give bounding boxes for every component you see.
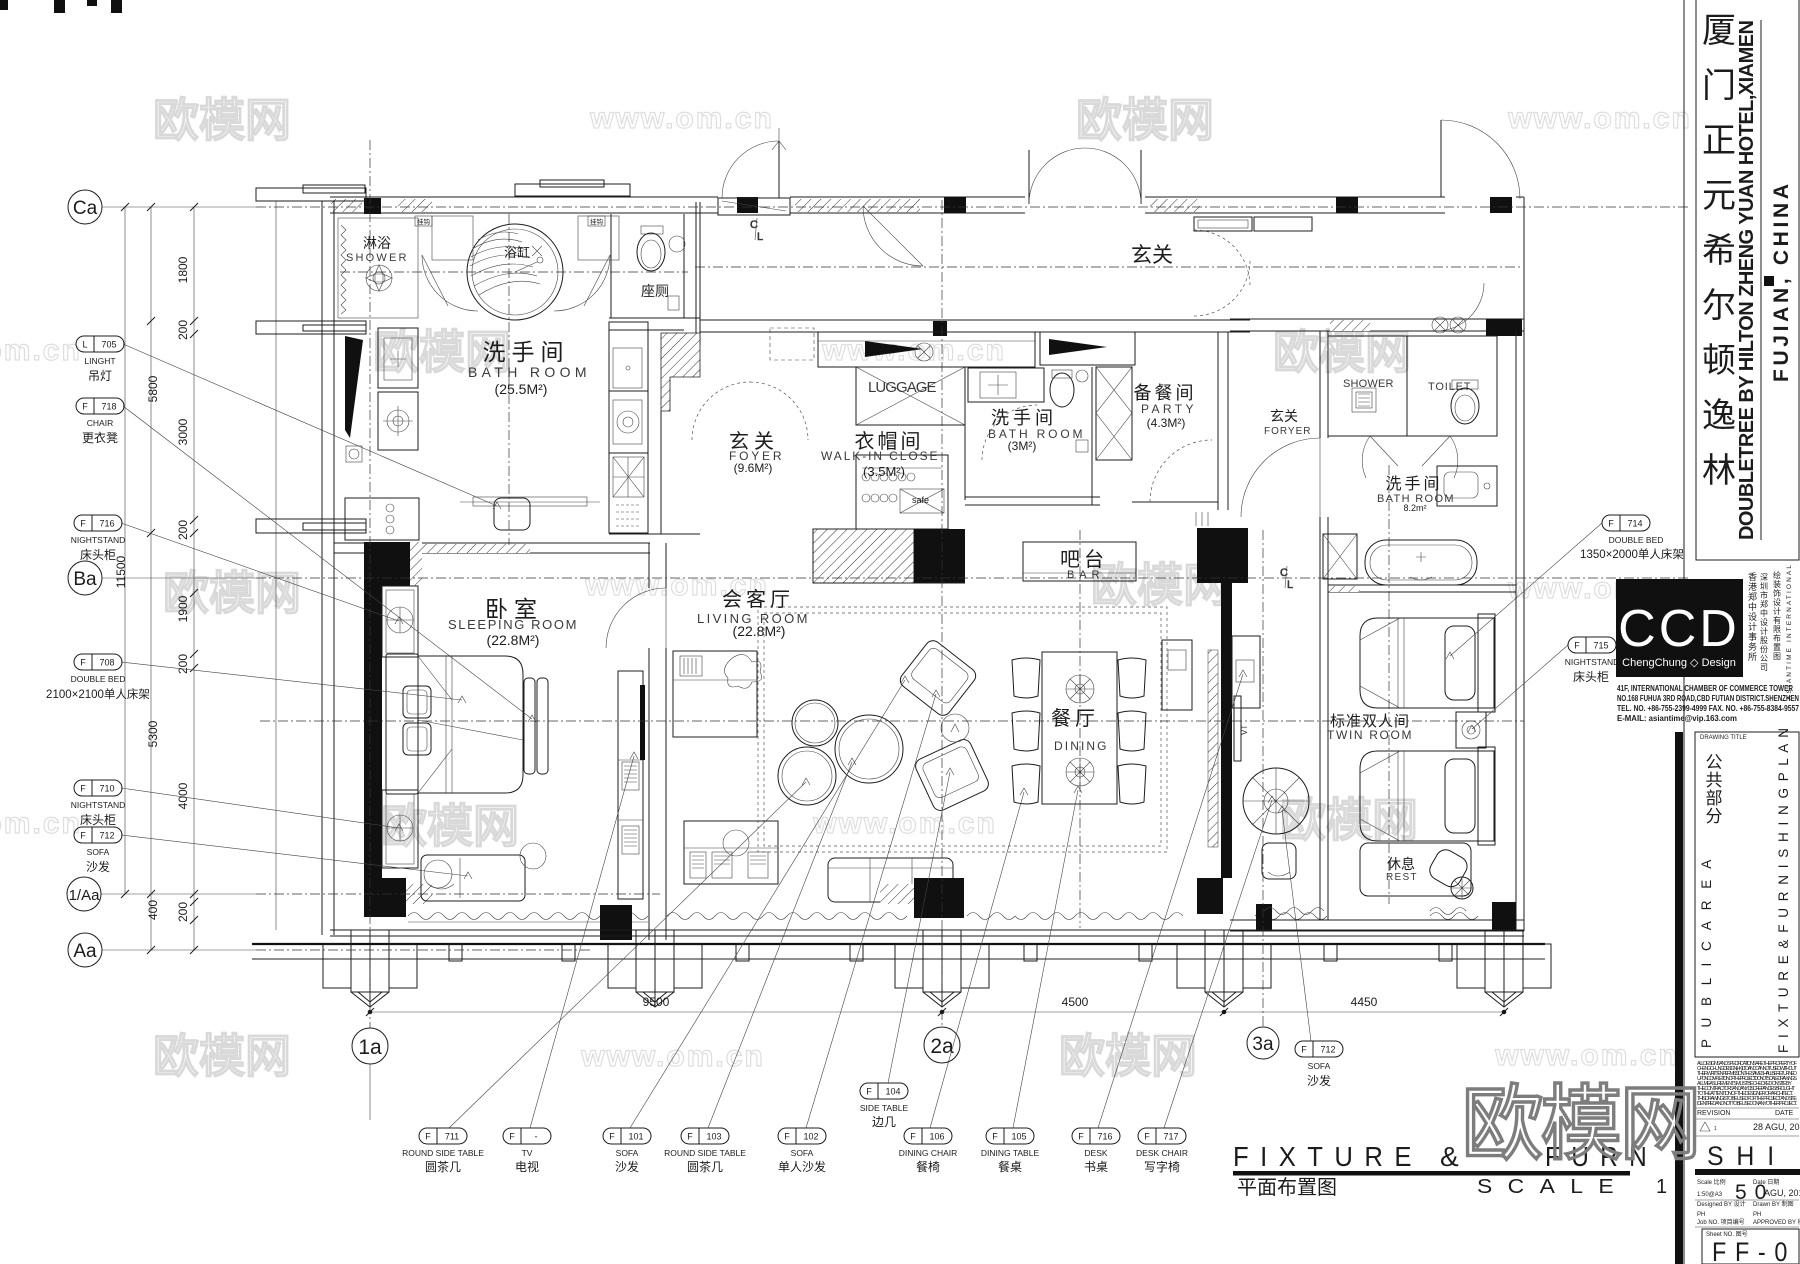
svg-text:714: 714: [1627, 519, 1642, 529]
svg-text:200: 200: [176, 320, 190, 340]
svg-text:CCD: CCD: [1618, 600, 1740, 658]
svg-text:(4.3M²): (4.3M²): [1147, 416, 1186, 430]
svg-text:欧模网: 欧模网: [381, 800, 519, 852]
svg-text:正: 正: [1702, 122, 1736, 160]
party room: [1096, 367, 1132, 460]
svg-text:4450: 4450: [1351, 995, 1378, 1009]
svg-text:元: 元: [1702, 177, 1736, 215]
living/dining curtains: [667, 913, 907, 920]
luggage closet: [856, 367, 965, 425]
svg-text:712: 712: [1320, 1045, 1335, 1055]
svg-text:708: 708: [99, 658, 114, 668]
dining table: [1042, 652, 1117, 804]
svg-text:41F, INTERNATIONAL CHAMBER OF: 41F, INTERNATIONAL CHAMBER OF COMMERCE T…: [1617, 684, 1793, 693]
double bed: [386, 654, 418, 794]
svg-text:APPROVED BY 核准: APPROVED BY 核准: [1753, 1218, 1800, 1226]
svg-text:洗手间: 洗手间: [1385, 475, 1442, 493]
closet lower wall piers: [813, 529, 914, 583]
svg-text:NIGHTSTAND: NIGHTSTAND: [71, 800, 126, 810]
svg-text:IDENTIFIED AND NOT TO BE USED: IDENTIFIED AND NOT TO BE USED ON ANY OTH…: [1697, 1101, 1798, 1107]
top-left ledge slabs: [256, 188, 366, 201]
svg-text:1:50@A3: 1:50@A3: [1697, 1192, 1723, 1198]
corridor centerline: [695, 266, 1520, 268]
svg-text:公: 公: [1706, 753, 1723, 772]
shower rosette: [366, 265, 392, 291]
svg-text:PH: PH: [1697, 1212, 1705, 1218]
dining buffet: [1162, 640, 1192, 710]
nightstand between beds: [1456, 712, 1486, 748]
svg-text:顿: 顿: [1702, 342, 1736, 380]
wall columns (black): [364, 198, 381, 214]
svg-text:(3.5M²): (3.5M²): [863, 464, 905, 479]
svg-text:NIGHTSTAND: NIGHTSTAND: [71, 535, 126, 545]
svg-text:DATE: DATE: [1775, 1110, 1793, 1117]
svg-text:欧模网: 欧模网: [153, 1030, 291, 1082]
legal fine print: [1697, 1061, 1798, 1107]
svg-text:TV: TV: [522, 1148, 533, 1158]
bedroom top wall: [334, 542, 650, 544]
svg-text:Job NO. 项目编号: Job NO. 项目编号: [1697, 1218, 1745, 1226]
svg-text:TWIN ROOM: TWIN ROOM: [1327, 728, 1413, 742]
twin bed 2: [1360, 751, 1494, 841]
svg-text:会客厅: 会客厅: [722, 588, 794, 611]
svg-text:Ba: Ba: [73, 569, 97, 590]
watermark lattice: [0, 94, 1692, 1082]
svg-text:F: F: [509, 1132, 515, 1142]
living room kitchen cabinet: [673, 651, 757, 737]
desk: [1232, 636, 1260, 708]
svg-text:TEL. NO. +86-755-2399-4999: TEL. NO. +86-755-2399-4999 FAX. NO. +86-…: [1617, 704, 1799, 713]
svg-text:SHOWER: SHOWER: [346, 252, 408, 264]
top wall: [330, 196, 718, 198]
CCD logo: [1616, 579, 1743, 677]
svg-text:F: F: [687, 1132, 693, 1142]
wing inner wall below bath: [1328, 584, 1516, 586]
svg-text:玄关: 玄关: [1131, 244, 1173, 267]
svg-text:F: F: [1078, 1132, 1084, 1142]
svg-text:104: 104: [885, 1087, 900, 1097]
svg-text:www.om.cn: www.om.cn: [580, 1040, 765, 1073]
svg-text:洗手间: 洗手间: [991, 408, 1057, 428]
svg-text:717: 717: [1163, 1132, 1178, 1142]
round coffee tables: [792, 700, 838, 746]
wardrobe + safe: [856, 455, 948, 529]
dresser knobs + bench: [345, 498, 419, 540]
svg-text:LINGHT: LINGHT: [84, 356, 115, 366]
corner marks top-left: [0, 0, 122, 13]
svg-text:沙发: 沙发: [86, 859, 110, 874]
svg-text:F: F: [80, 519, 86, 529]
svg-text:1: 1: [1656, 1176, 1667, 1198]
svg-text:www.om.cn: www.om.cn: [812, 807, 997, 840]
svg-text:F: F: [80, 658, 86, 668]
CL symbol: [750, 218, 763, 243]
svg-text:欧模网: 欧模网: [1273, 326, 1411, 378]
svg-text:P U B L I C A R E A: P U B L I C A R E A: [1699, 856, 1714, 1048]
svg-text:FF-0: FF-0: [1712, 1237, 1796, 1264]
svg-text:玄关: 玄关: [1270, 408, 1298, 424]
svg-text:www.om.cn: www.om.cn: [0, 807, 82, 840]
svg-text:www.om.cn: www.om.cn: [0, 334, 82, 367]
svg-text:TOILET: TOILET: [1428, 381, 1472, 393]
svg-text:1/Aa: 1/Aa: [69, 887, 101, 904]
svg-text:电视: 电视: [515, 1159, 539, 1174]
shower room: [1328, 336, 1407, 436]
closet doors right of corridor: [1194, 217, 1252, 231]
svg-text:餐厅: 餐厅: [1051, 707, 1099, 730]
svg-text:圆茶几: 圆茶几: [687, 1159, 723, 1174]
pilasters: [323, 930, 1551, 1007]
svg-text:洗手间: 洗手间: [483, 339, 570, 365]
svg-text:床头柜: 床头柜: [1573, 670, 1609, 684]
svg-text:www.om.cn: www.om.cn: [589, 102, 774, 135]
svg-text:F: F: [80, 784, 86, 794]
right tags: [1295, 515, 1684, 1088]
svg-text:Ca: Ca: [73, 198, 98, 219]
long centerline through plan: [260, 720, 1524, 722]
svg-text:FORYER: FORYER: [1264, 426, 1312, 437]
bedroom sofa: [421, 855, 525, 901]
svg-text:E-MAIL: asiantime@vip.163.com: E-MAIL: asiantime@vip.163.com: [1617, 714, 1737, 723]
hooks: [415, 216, 432, 226]
svg-text:LUGGAGE: LUGGAGE: [868, 379, 938, 396]
svg-text:www.om.cn: www.om.cn: [1507, 102, 1692, 135]
svg-text:欧模网: 欧模网: [1280, 794, 1418, 846]
drawing title box: [1695, 732, 1799, 1057]
bench in bathroom: [473, 497, 587, 506]
svg-text:DESK CHAIR: DESK CHAIR: [1136, 1148, 1188, 1158]
svg-text:DINING TABLE: DINING TABLE: [981, 1148, 1040, 1158]
svg-text:REVISION: REVISION: [1697, 1110, 1730, 1117]
svg-text:BAR: BAR: [1067, 569, 1101, 581]
svg-text:www.om.cn: www.om.cn: [1494, 1039, 1679, 1072]
svg-text:102: 102: [803, 1132, 818, 1142]
svg-text:F: F: [992, 1132, 998, 1142]
door top-right: [1440, 120, 1442, 197]
svg-text:F: F: [1301, 1045, 1307, 1055]
svg-text:28 AGU, 2015: 28 AGU, 2015: [1753, 1122, 1800, 1132]
grid bubbles bottom: [369, 140, 371, 1028]
curtains bedroom: [408, 913, 648, 920]
svg-text:F: F: [1144, 1132, 1150, 1142]
tub side mirrors: [432, 216, 473, 260]
svg-text:PH: PH: [1753, 1212, 1761, 1218]
svg-text:DOUBLETREE BY HILTON ZHENG YU: DOUBLETREE BY HILTON ZHENG YUAN HOTEL,XI…: [1736, 20, 1758, 540]
project name box: [1696, 0, 1799, 560]
svg-text:F: F: [80, 831, 86, 841]
svg-text:716: 716: [1097, 1132, 1112, 1142]
svg-text:(22.8M²): (22.8M²): [733, 623, 786, 639]
svg-text:SOFA: SOFA: [87, 847, 110, 857]
bathroom doors: [422, 255, 448, 306]
svg-text:1800: 1800: [176, 256, 190, 283]
svg-text:VT: VT: [1240, 725, 1249, 735]
svg-text:F: F: [866, 1087, 872, 1097]
left foyer cabinets column: [609, 322, 648, 391]
svg-text:3000: 3000: [176, 418, 190, 445]
svg-text:沙发: 沙发: [1307, 1073, 1331, 1088]
svg-text:F: F: [1608, 519, 1614, 529]
svg-text:1350×2000单人床架: 1350×2000单人床架: [1580, 547, 1684, 561]
dining carpet dashed: [758, 607, 1167, 852]
svg-text:(25.5M²): (25.5M²): [495, 381, 548, 397]
laundry X box: [1323, 534, 1357, 579]
svg-text:分: 分: [1706, 807, 1723, 826]
svg-text:逸: 逸: [1702, 397, 1736, 435]
svg-text:DRAWING TITLE: DRAWING TITLE: [1700, 735, 1747, 741]
svg-text:尔: 尔: [1702, 287, 1736, 325]
bed bench: [524, 678, 535, 774]
wing left wall: [1319, 331, 1321, 438]
svg-text:F: F: [609, 1132, 615, 1142]
svg-text:718: 718: [101, 402, 116, 412]
svg-text:SOFA: SOFA: [791, 1148, 814, 1158]
svg-text:SLEEPING ROOM: SLEEPING ROOM: [448, 617, 578, 632]
toilet: [641, 226, 663, 234]
bathroom walls: [610, 214, 612, 318]
svg-text:710: 710: [99, 784, 114, 794]
svg-text:沙发: 沙发: [615, 1159, 639, 1174]
dresser black wedge: [345, 336, 363, 438]
svg-text:边几: 边几: [872, 1115, 896, 1129]
svg-text:1: 1: [1714, 1126, 1717, 1132]
svg-text:106: 106: [929, 1132, 944, 1142]
svg-text:绘装饰设计有限布置图: 绘装饰设计有限布置图: [1773, 570, 1781, 661]
stool: [1262, 843, 1296, 879]
svg-text:平面布置图: 平面布置图: [1237, 1176, 1337, 1199]
entry door arc: [1436, 283, 1484, 331]
dim chains: [124, 207, 126, 894]
svg-text:F I X T U R E & F U R N I S: F I X T U R E & F U R N I S H I N G P L …: [1776, 728, 1791, 1053]
svg-text:书桌: 书桌: [1084, 1160, 1108, 1174]
svg-text:床头柜: 床头柜: [80, 548, 116, 562]
svg-text:FUJIAN, CHINA: FUJIAN, CHINA: [1770, 184, 1793, 382]
svg-text:FIXTURE: FIXTURE: [1233, 1141, 1423, 1172]
double doors to bath: [1370, 436, 1398, 466]
svg-text:香港郑中设计事务所: 香港郑中设计事务所: [1748, 572, 1757, 662]
svg-text:safe: safe: [912, 495, 929, 505]
foyer dashed door arcs: [692, 382, 750, 440]
svg-text:CHAIR: CHAIR: [87, 418, 113, 428]
svg-text:2100×2100单人床架: 2100×2100单人床架: [46, 687, 150, 701]
svg-text:备餐间: 备餐间: [1134, 383, 1197, 403]
shower room: [338, 218, 418, 318]
svg-text:1a: 1a: [358, 1036, 382, 1059]
svg-text:欧模网: 欧模网: [1059, 1030, 1197, 1082]
svg-text:F: F: [425, 1132, 431, 1142]
svg-text:DINING: DINING: [1054, 739, 1108, 753]
svg-text:200: 200: [176, 520, 190, 540]
door top-1: [718, 198, 790, 215]
svg-text:4000: 4000: [176, 782, 190, 809]
svg-text:深圳市郑中设计股份公司: 深圳市郑中设计股份公司: [1760, 573, 1768, 672]
svg-text:REST: REST: [1386, 872, 1418, 883]
svg-text:ROUND SIDE TABLE: ROUND SIDE TABLE: [402, 1148, 484, 1158]
svg-text:AGU, 2015: AGU, 2015: [1764, 1188, 1800, 1198]
svg-text:DESK: DESK: [1084, 1148, 1107, 1158]
svg-text:www.om.cn: www.om.cn: [821, 334, 1006, 367]
svg-text:5300: 5300: [146, 720, 160, 747]
svg-text:床头柜: 床头柜: [80, 813, 116, 827]
right wall: [1515, 331, 1517, 931]
svg-text:SIDE TABLE: SIDE TABLE: [860, 1103, 909, 1113]
tub: [1365, 540, 1477, 585]
svg-text:105: 105: [1011, 1132, 1026, 1142]
svg-text:DOUBLE BED: DOUBLE BED: [1609, 535, 1664, 545]
svg-text:716: 716: [99, 519, 114, 529]
svg-text:200: 200: [176, 902, 190, 922]
bottom black columns: [914, 878, 964, 918]
left exterior: [275, 201, 277, 930]
svg-text:4500: 4500: [1062, 995, 1089, 1009]
desk chair wheel: [1243, 768, 1309, 834]
left tags: [46, 336, 150, 874]
svg-text:SHI: SHI: [1707, 1141, 1787, 1171]
svg-text:(9.6M²): (9.6M²): [734, 461, 773, 475]
svg-text:共: 共: [1706, 771, 1723, 790]
svg-text:吧台: 吧台: [1060, 548, 1108, 571]
svg-text:欧模网: 欧模网: [1076, 94, 1214, 146]
svg-text:400: 400: [146, 900, 160, 920]
TV wall: [648, 543, 650, 588]
svg-text:ChengChung ◇ Design: ChengChung ◇ Design: [1622, 657, 1736, 669]
entry inner door swing: [863, 206, 923, 266]
stubs: [449, 944, 1452, 961]
svg-text:座厕: 座厕: [641, 283, 669, 299]
svg-text:林: 林: [1702, 452, 1736, 490]
svg-text:ROUND SIDE TABLE: ROUND SIDE TABLE: [664, 1148, 746, 1158]
living counter bottom: [684, 821, 778, 884]
svg-text:705: 705: [101, 340, 116, 350]
svg-text:欧模网: 欧模网: [1461, 1079, 1698, 1170]
svg-text:餐椅: 餐椅: [916, 1159, 940, 1174]
dining chairs: [1012, 658, 1146, 804]
svg-text:SOFA: SOFA: [1308, 1061, 1331, 1071]
svg-text:F: F: [910, 1132, 916, 1142]
svg-text:F: F: [784, 1132, 790, 1142]
svg-text:200: 200: [176, 654, 190, 674]
twin bed 1: [1360, 618, 1494, 708]
bathroom centerline: [508, 214, 510, 545]
svg-text:9500: 9500: [643, 995, 670, 1009]
svg-text:餐桌: 餐桌: [998, 1159, 1022, 1174]
svg-text:(3M²): (3M²): [1008, 439, 1037, 453]
svg-text:厦: 厦: [1702, 12, 1736, 50]
cabinet row below corridor: [818, 332, 1035, 367]
bottom dimension line: [370, 1011, 1504, 1013]
svg-text:挂钩: 挂钩: [590, 217, 604, 226]
armchairs: [897, 637, 979, 718]
bar: [1023, 542, 1136, 581]
nightstand niches: [382, 586, 418, 657]
svg-text:圆茶几: 圆茶几: [425, 1159, 461, 1174]
svg-text:1900: 1900: [176, 595, 190, 622]
svg-text:11500: 11500: [114, 555, 128, 588]
vanities: [378, 328, 418, 388]
svg-text:712: 712: [99, 831, 114, 841]
svg-text:SOFA: SOFA: [616, 1148, 639, 1158]
svg-text:(22.8M²): (22.8M²): [487, 632, 540, 648]
living sofa: [828, 858, 953, 902]
svg-text:欧模网: 欧模网: [153, 94, 291, 146]
svg-text:103: 103: [706, 1132, 721, 1142]
svg-text:-: -: [535, 1132, 538, 1142]
toilet room: [1407, 336, 1497, 436]
svg-text:挂钩: 挂钩: [417, 217, 431, 226]
svg-text:L: L: [757, 231, 763, 243]
svg-text:8.2m²: 8.2m²: [1403, 503, 1426, 513]
svg-text:101: 101: [628, 1132, 643, 1142]
mini bath (3M2): [964, 367, 966, 500]
frame lines: [1683, 0, 1685, 1264]
svg-text:L: L: [1287, 579, 1293, 591]
bath 8.2 fixtures: [1437, 466, 1497, 506]
svg-text:DINING CHAIR: DINING CHAIR: [899, 1148, 958, 1158]
svg-text:WALK-IN CLOSE: WALK-IN CLOSE: [821, 449, 939, 463]
svg-text:&: &: [1440, 1141, 1459, 1172]
entry double door: [1028, 150, 1030, 204]
svg-text:吊灯: 吊灯: [88, 369, 112, 383]
svg-text:部: 部: [1706, 789, 1723, 808]
svg-text:希: 希: [1702, 232, 1736, 270]
svg-text:Aa: Aa: [73, 941, 97, 962]
corridor bottom wall: [700, 319, 1250, 321]
svg-text:单人沙发: 单人沙发: [778, 1159, 826, 1174]
svg-text:写字椅: 写字椅: [1144, 1159, 1180, 1174]
svg-text:F: F: [82, 402, 88, 412]
svg-text:L: L: [82, 340, 87, 350]
svg-text:NO.168 FUHUA 3RD ROAD,CBD FUTI: NO.168 FUHUA 3RD ROAD,CBD FUTIAN DISTRIC…: [1617, 694, 1799, 703]
svg-text:Scale 比例: Scale 比例: [1697, 1178, 1726, 1186]
svg-text:NIGHTSTAND: NIGHTSTAND: [1565, 657, 1620, 667]
svg-text:更衣凳: 更衣凳: [82, 430, 118, 445]
bathtub: [467, 224, 563, 320]
right wing top wall: [1230, 318, 1524, 320]
centerlines: [1388, 465, 1390, 904]
svg-text:5800: 5800: [146, 375, 160, 402]
svg-text:3a: 3a: [1252, 1034, 1274, 1055]
svg-text:DOUBLE BED: DOUBLE BED: [71, 674, 126, 684]
wing bottom wall: [1230, 919, 1524, 921]
rest area: [1360, 843, 1471, 896]
svg-text:SHOWER: SHOWER: [1343, 378, 1395, 390]
svg-text:715: 715: [1593, 641, 1608, 651]
svg-text:PARTY: PARTY: [1141, 402, 1195, 416]
svg-text:711: 711: [445, 1132, 459, 1142]
svg-text:门: 门: [1702, 67, 1736, 105]
bottom tags: [402, 1083, 1188, 1174]
svg-text:SCALE: SCALE: [1477, 1176, 1629, 1198]
svg-text:淋浴: 淋浴: [363, 235, 391, 251]
bedroom west black wall: [364, 542, 410, 586]
wing curtains: [1264, 908, 1324, 915]
svg-text:浴缸: 浴缸: [504, 245, 530, 260]
central black columns: [1197, 528, 1248, 583]
svg-text:F: F: [1574, 641, 1580, 651]
svg-text:休息: 休息: [1387, 856, 1415, 872]
